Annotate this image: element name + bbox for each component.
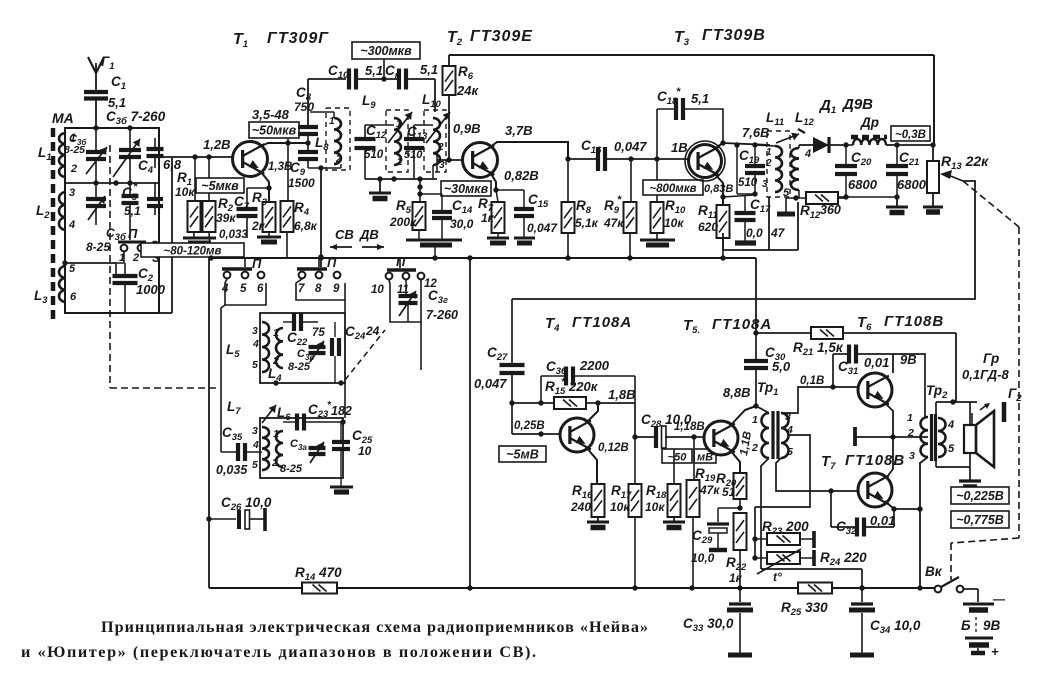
svg-text:2: 2 — [335, 154, 342, 165]
label 1,2В — [203, 137, 230, 152]
label T5 ГТ108А — [683, 316, 772, 336]
label C2 1000 — [136, 266, 166, 297]
R13 wiper arrow — [940, 170, 963, 181]
svg-text:1В: 1В — [671, 140, 688, 155]
wire C11 right — [406, 79, 435, 112]
capacitor C8 — [298, 127, 318, 134]
svg-text:~30мкв: ~30мкв — [444, 182, 489, 196]
transistor T2 — [463, 143, 498, 178]
inductor L1 — [59, 132, 77, 177]
inductor L4 — [272, 327, 283, 368]
svg-text:+: + — [991, 644, 999, 659]
label 3,5-48 — [252, 107, 290, 122]
label R13 22к — [941, 153, 989, 172]
caption line 1 — [101, 618, 648, 636]
svg-text:1: 1 — [396, 119, 402, 130]
wire L12 top to diode — [799, 145, 813, 148]
boxed label ~800мкв — [643, 180, 703, 195]
label R6 24к — [456, 64, 479, 98]
label R25 330 — [781, 600, 828, 618]
svg-text:182: 182 — [331, 404, 352, 418]
wire pins to C2 — [116, 252, 124, 263]
svg-text:2: 2 — [70, 163, 77, 175]
capacitor C15 — [496, 190, 534, 238]
transistor T7 — [858, 473, 892, 507]
label L2 — [36, 203, 50, 221]
trimmer C3в — [309, 341, 326, 362]
capacitor C12 — [355, 125, 395, 179]
svg-text:ГТ108В: ГТ108В — [845, 452, 905, 469]
capacitor C35 — [221, 443, 262, 461]
label 0,25В — [514, 420, 545, 432]
inductor L6b — [271, 428, 283, 469]
node tuning cap top — [127, 125, 132, 130]
svg-text:3: 3 — [762, 179, 768, 190]
svg-text:*: * — [617, 194, 622, 206]
wire emitter to C7 — [247, 188, 269, 209]
capacitor C5 — [122, 183, 139, 240]
inductor L3 — [59, 263, 77, 303]
label C18* 5,1 — [657, 86, 709, 107]
resistor R9 — [624, 159, 637, 258]
wire T4 out row — [632, 434, 655, 439]
capacitor C5b — [147, 183, 163, 215]
label C29 10,0 — [691, 528, 715, 565]
capacitor C16 — [598, 147, 605, 171]
resistor R22 1к — [734, 513, 747, 591]
wire T2 emitter — [490, 172, 499, 193]
osc tank box L6 — [260, 418, 343, 478]
svg-text:5: 5 — [252, 459, 258, 471]
svg-text:3: 3 — [252, 325, 258, 337]
antenna Г1 — [88, 57, 104, 92]
wire C36 R15 join — [598, 376, 635, 437]
wire osc tank bottom — [273, 380, 343, 385]
svg-text:4: 4 — [947, 419, 954, 431]
svg-text:5: 5 — [787, 446, 793, 458]
label C8 750 — [294, 85, 314, 114]
transformer Tp2 primary — [907, 412, 928, 462]
label 1,8В — [608, 387, 635, 402]
wire detector out — [897, 142, 936, 147]
label L6 — [262, 405, 291, 423]
wire speaker bottom — [936, 452, 970, 467]
label R4 6,8к — [294, 200, 318, 233]
svg-text:0,0: 0,0 — [746, 226, 763, 240]
svg-text:0,047: 0,047 — [527, 221, 558, 235]
svg-text:10к: 10к — [610, 500, 630, 514]
label R1 10к — [175, 170, 195, 199]
svg-text:Др: Др — [860, 115, 879, 130]
tank L9 — [386, 110, 412, 172]
svg-text:8-25: 8-25 — [86, 240, 110, 254]
label R17 10к — [610, 483, 632, 514]
svg-text:Д9В: Д9В — [841, 96, 873, 113]
osc tank box L4 L5 — [260, 313, 345, 383]
label R10 10к — [664, 198, 686, 230]
label Гр 0,1ГД-8 — [962, 351, 1009, 382]
wire collector to C16 — [568, 158, 598, 160]
transistor T4 — [560, 418, 594, 452]
label C25 10 — [352, 428, 373, 458]
svg-text:24к: 24к — [456, 83, 479, 98]
capacitor C31 0,01 — [833, 345, 893, 388]
label 7,6B node — [0, 0, 1, 1]
wire top rail right drop — [933, 55, 935, 145]
svg-text:10,0: 10,0 — [691, 551, 715, 565]
svg-text:7,6В: 7,6В — [742, 125, 769, 140]
label Тр1 — [757, 380, 778, 398]
boxed label ~50мкв — [249, 122, 299, 143]
label C35 0,035 — [216, 425, 248, 477]
svg-text:0,12В: 0,12В — [598, 442, 629, 454]
capacitor C18 feedback — [657, 98, 723, 159]
capacitor C7 — [237, 209, 258, 238]
wire outer right — [159, 157, 172, 313]
svg-text:6: 6 — [70, 291, 77, 303]
boxed label ~80-120мв — [141, 243, 244, 258]
svg-text:4: 4 — [68, 219, 75, 231]
ground speaker — [959, 467, 981, 487]
shield box L12 — [769, 202, 798, 250]
label C3в 8-25 — [288, 348, 314, 373]
supply rail mid — [208, 255, 756, 260]
wire T2 base — [437, 152, 462, 172]
svg-text:П: П — [128, 226, 138, 241]
svg-text:5: 5 — [69, 263, 76, 275]
svg-text:2: 2 — [396, 157, 403, 168]
resistor R8 — [562, 159, 575, 258]
input box outline — [65, 128, 159, 313]
battery Б 9В — [961, 592, 1006, 659]
svg-text:4: 4 — [252, 439, 259, 451]
svg-text:1к: 1к — [729, 571, 743, 585]
svg-text:0,047: 0,047 — [474, 376, 507, 391]
svg-text:200к: 200к — [389, 215, 417, 229]
svg-text:51: 51 — [722, 485, 736, 499]
label C12 510 — [364, 123, 387, 161]
svg-text:3,5-48: 3,5-48 — [252, 107, 290, 122]
boxed label ~0,3В — [891, 126, 930, 141]
switch group2 П 7-8-9 — [297, 255, 340, 295]
svg-text:7-260: 7-260 — [426, 308, 458, 322]
trimmer C3б lower — [86, 183, 106, 225]
switch group1 П 4-5-6 — [221, 256, 264, 295]
inductor L8 — [310, 108, 350, 170]
capacitor C13 — [404, 125, 433, 179]
label 0,12В — [598, 442, 629, 454]
svg-text:*: * — [133, 181, 138, 193]
label L8 — [315, 116, 342, 165]
svg-text:0,83В: 0,83В — [704, 183, 733, 195]
capacitor C11 — [399, 69, 406, 90]
svg-text:П: П — [327, 255, 337, 270]
label L11 — [762, 110, 784, 190]
wire rail to T5 — [753, 258, 758, 336]
svg-text:8-25: 8-25 — [288, 361, 311, 373]
label R22 1к — [726, 555, 747, 585]
label C3г 7-260 — [426, 288, 458, 322]
svg-text:1: 1 — [907, 412, 913, 424]
svg-text:*: * — [676, 86, 681, 98]
svg-text:7: 7 — [298, 283, 305, 295]
wire detector bottom — [838, 194, 900, 199]
capacitor C27 — [500, 299, 525, 406]
label C33 30,0 — [683, 616, 734, 634]
label 3,7В — [505, 123, 532, 138]
wire input row low — [62, 260, 116, 265]
svg-text:10к: 10к — [664, 216, 684, 230]
label C4 6,8 — [138, 157, 182, 176]
label R21 1,5к — [793, 340, 844, 358]
boxed label ~5мВ — [499, 446, 546, 462]
label T7 ГТ108В — [821, 452, 905, 472]
resistor R16 240 — [592, 484, 605, 517]
resistor R25 330 — [798, 583, 832, 594]
capacitor C26 10,0 — [209, 508, 265, 531]
svg-text:Б: Б — [961, 618, 971, 633]
capacitor C9 — [298, 152, 318, 159]
svg-text:1500: 1500 — [288, 176, 315, 190]
svg-text:2200: 2200 — [579, 358, 610, 373]
svg-text:П: П — [396, 254, 406, 269]
svg-text:10: 10 — [358, 444, 372, 458]
label 0,82В — [504, 168, 539, 183]
capacitor C10 — [349, 69, 356, 90]
label C7 0,033 — [219, 194, 250, 241]
wire T3 collector — [714, 140, 770, 149]
ground osc — [330, 487, 353, 492]
tank gang dashed diagonal — [345, 330, 385, 380]
ground R3 — [257, 232, 281, 242]
resistor R20 51 — [734, 473, 747, 499]
transistor T5 — [704, 421, 738, 455]
svg-text:5,1: 5,1 — [108, 95, 126, 110]
wire emitter node — [737, 499, 742, 511]
ground R13 — [923, 207, 943, 212]
label T3 ГТ309В — [674, 27, 766, 48]
label C31 0,01 — [838, 355, 889, 377]
capacitor C24 — [332, 322, 339, 383]
wire L12 bottom — [786, 190, 806, 201]
boxed label ~5мкв — [196, 178, 244, 193]
svg-text:1: 1 — [766, 147, 772, 158]
svg-text:0,01: 0,01 — [864, 355, 889, 370]
svg-text:t°: t° — [773, 570, 782, 584]
wire tank boxes link — [344, 383, 346, 418]
shield box L11 — [723, 197, 769, 250]
label 1В — [671, 140, 688, 155]
svg-text:360: 360 — [820, 203, 841, 217]
trunk AF — [467, 255, 472, 588]
svg-text:240: 240 — [570, 500, 591, 514]
resistor R2 — [203, 157, 216, 258]
transformer Tp2 core — [932, 414, 936, 461]
wire T7 collector — [885, 501, 923, 512]
switch Вк — [925, 564, 963, 592]
svg-text:~5мкв: ~5мкв — [201, 179, 239, 193]
resistor R6 — [443, 55, 456, 163]
svg-text:1: 1 — [273, 327, 279, 339]
label L3 — [34, 288, 48, 306]
wire input row mid — [65, 180, 159, 185]
switch group3 wires — [389, 280, 421, 322]
wire T1 emitter — [261, 172, 272, 202]
label T4 ГТ108А — [545, 314, 632, 334]
svg-text:2: 2 — [765, 158, 772, 169]
label R3 2к — [251, 190, 268, 233]
wire tank bottoms — [365, 165, 437, 182]
svg-text:0,01: 0,01 — [870, 513, 895, 528]
svg-text:24: 24 — [365, 324, 380, 338]
label R16 240 — [570, 483, 593, 514]
svg-text:6800: 6800 — [897, 177, 927, 192]
svg-text:~800мкв: ~800мкв — [649, 183, 696, 195]
resistor R7 — [492, 190, 505, 233]
svg-text:1к: 1к — [481, 211, 495, 225]
svg-text:30,0: 30,0 — [450, 217, 474, 231]
svg-text:5,1: 5,1 — [420, 62, 438, 77]
svg-text:5,1к: 5,1к — [575, 216, 599, 230]
label 1 C3б 8-25 — [64, 133, 87, 156]
wire T4 emitter — [586, 447, 597, 484]
capacitor C29 10,0 — [707, 508, 740, 550]
resistor R12 360 — [806, 192, 846, 204]
svg-text:75: 75 — [312, 327, 325, 339]
ground C15 — [514, 238, 535, 243]
svg-text:10к: 10к — [645, 500, 665, 514]
resistor R3 — [263, 202, 276, 232]
resistor R14 470 — [302, 583, 337, 594]
resistor R11 — [717, 205, 730, 258]
svg-text:0,047: 0,047 — [614, 139, 647, 154]
svg-text:510: 510 — [364, 149, 384, 161]
label T1 ГТ309Г — [233, 30, 329, 50]
svg-text:8: 8 — [315, 283, 322, 295]
resistor R23 200 — [755, 531, 814, 548]
wire Tp1 sec pin5 to T7 — [776, 458, 858, 494]
svg-text:и «Юпитер» (переключатель диап: и «Юпитер» (переключатель диапазонов в п… — [21, 643, 536, 661]
switch group2 wires — [296, 279, 345, 313]
svg-text:1,2В: 1,2В — [203, 137, 230, 152]
capacitor C22 75 — [283, 313, 318, 331]
wire T4 collector — [586, 403, 598, 423]
label C13 510 — [404, 124, 428, 161]
svg-text:3: 3 — [69, 187, 75, 199]
switch П pins 1 2 — [118, 226, 146, 264]
label 0,83В — [704, 183, 733, 195]
wire C10-C11 — [356, 76, 399, 81]
wire rail drop right — [950, 333, 956, 405]
wire T2 collector — [489, 142, 571, 162]
label L10 — [422, 92, 445, 171]
trimmer C3б upper — [86, 128, 107, 183]
transformer Tp1 primary — [751, 406, 769, 458]
svg-text:6: 6 — [257, 283, 264, 295]
svg-text:5,1: 5,1 — [124, 204, 141, 218]
svg-text:1: 1 — [273, 428, 279, 440]
label C5* 5,1 — [122, 181, 141, 218]
wiper signal wire — [512, 181, 975, 299]
wire switch to battery — [963, 589, 978, 602]
label R5 200к — [389, 198, 417, 229]
svg-text:—: — — [992, 592, 1006, 606]
svg-text:39к: 39к — [216, 211, 236, 225]
wire T6 to Tp2 pin1 — [893, 354, 925, 417]
label C1 5,1 — [108, 74, 126, 110]
label R23 200 — [762, 519, 809, 537]
boxed label ~0,775В — [951, 511, 1009, 528]
capacitor C1 — [84, 92, 108, 128]
inductor L2 — [59, 187, 75, 231]
inductor L5 — [252, 322, 269, 372]
svg-text:3,7В: 3,7В — [505, 123, 532, 138]
inductor L6 — [252, 425, 269, 471]
resistor R21 1,5к — [756, 327, 956, 339]
inductor L12 — [776, 129, 805, 190]
resistor R15* 220к — [554, 397, 601, 409]
label MA — [52, 110, 74, 126]
label C30 5,0 — [765, 345, 791, 374]
capacitor C30 5,0 — [744, 333, 768, 409]
speaker V arrow — [980, 403, 990, 410]
svg-text:0,25В: 0,25В — [514, 420, 545, 432]
label 0,1В — [800, 375, 824, 387]
svg-text:ГТ309Е: ГТ309Е — [470, 28, 533, 45]
svg-text:5: 5 — [948, 443, 955, 455]
label C27 0,047 — [474, 345, 508, 391]
label R14 470 — [295, 565, 342, 583]
label L4 — [268, 366, 282, 384]
label C28 10,0 — [641, 412, 692, 430]
diode Д1 — [813, 137, 849, 153]
label R8 5,1к — [575, 198, 599, 230]
label L12 — [783, 110, 815, 199]
label 8,8В — [723, 385, 750, 400]
label R12 360 — [800, 203, 841, 221]
svg-text:47к: 47к — [603, 216, 624, 230]
volume link dashed — [951, 181, 1019, 580]
svg-text:5,0: 5,0 — [772, 359, 791, 374]
svg-text:0,035: 0,035 — [216, 463, 248, 477]
svg-text:510: 510 — [404, 149, 423, 161]
switch pin 3 — [152, 242, 160, 265]
label C32 0,01 — [836, 513, 895, 537]
trimmer C3а — [309, 442, 326, 463]
label R2 39к — [216, 196, 236, 225]
svg-text:620: 620 — [698, 220, 718, 234]
ground R7 — [487, 233, 509, 243]
wire to speaker top — [936, 402, 977, 426]
svg-text:5,1: 5,1 — [691, 91, 709, 106]
svg-text:47: 47 — [770, 226, 786, 240]
capacitor C36 2200 — [541, 367, 635, 404]
wire switch3 to C23 — [408, 303, 421, 370]
transformer Tp2 secondary — [938, 418, 955, 457]
svg-text:5,1: 5,1 — [365, 63, 383, 78]
label C26 10,0 — [221, 495, 272, 513]
svg-text:0,9В: 0,9В — [453, 121, 480, 136]
resistor R1 — [188, 157, 201, 238]
center tap stub — [855, 427, 928, 446]
wire after C16 — [605, 156, 688, 161]
svg-text:2: 2 — [751, 442, 758, 454]
wire C9 trunk — [307, 99, 309, 127]
label R19 47к — [695, 466, 720, 497]
earphone jack Г2 — [1004, 386, 1022, 422]
label Др — [860, 115, 879, 130]
tank L11 — [755, 131, 790, 197]
